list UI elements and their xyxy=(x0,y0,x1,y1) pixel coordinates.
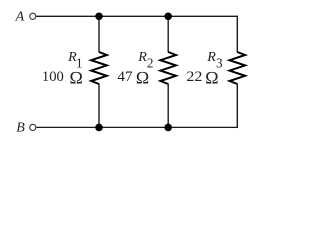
wire lead R1 bottom xyxy=(98,84,100,128)
wire lead R3 bottom xyxy=(236,84,238,129)
svg-text:B: B xyxy=(16,121,25,136)
svg-text:47 Ω: 47 Ω xyxy=(117,68,149,88)
wire lead R1 top xyxy=(98,16,100,52)
resistor R2 xyxy=(160,52,176,84)
terminal B xyxy=(30,124,36,130)
svg-text:100 Ω: 100 Ω xyxy=(42,68,83,88)
wire lead R3 top xyxy=(236,16,238,53)
junction dot bottom R1 xyxy=(95,124,103,132)
junction dot top R1 xyxy=(95,12,103,20)
wire bottom xyxy=(36,126,237,128)
svg-text:22 Ω: 22 Ω xyxy=(186,68,218,88)
junction dot top R2 xyxy=(164,12,172,20)
wire lead R2 bottom xyxy=(167,84,169,128)
wire top xyxy=(36,15,237,17)
wire lead R2 top xyxy=(167,16,169,52)
svg-text:A: A xyxy=(15,10,25,25)
resistor R3 xyxy=(230,52,246,84)
resistor R1 xyxy=(91,52,107,84)
terminal A xyxy=(30,13,36,19)
junction dot bottom R2 xyxy=(164,124,172,132)
